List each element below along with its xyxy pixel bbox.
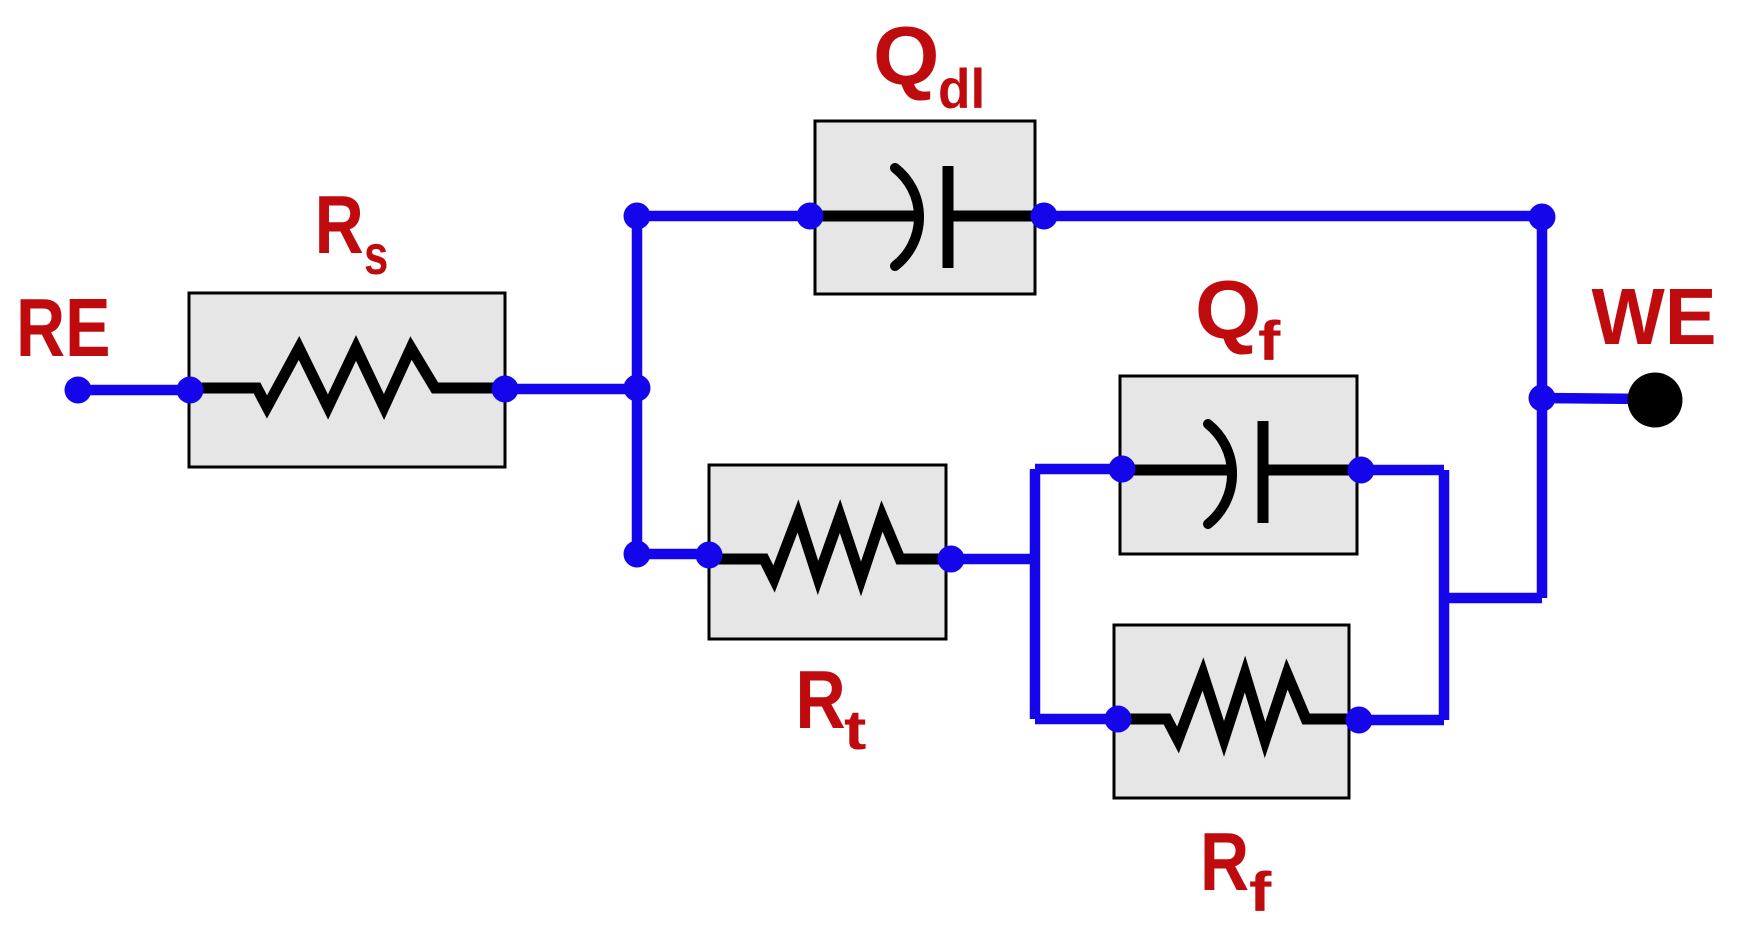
node Qf right xyxy=(1348,457,1375,484)
node bottom corner xyxy=(624,541,651,568)
node Qf left xyxy=(1109,456,1136,483)
wire Qdl to right corner xyxy=(1035,211,1542,222)
wire split to Rf xyxy=(1035,714,1118,725)
svg-text:R: R xyxy=(795,654,845,746)
resistor Rs box xyxy=(189,293,505,467)
terminal WE dot xyxy=(1628,373,1683,428)
wire top branch to Qdl xyxy=(637,211,815,222)
wire WE stub xyxy=(1542,398,1650,399)
node Rf left xyxy=(1105,706,1132,733)
svg-text:R: R xyxy=(315,179,364,272)
node WE junction xyxy=(1529,385,1556,412)
node Rt left xyxy=(696,542,723,569)
wire bottom branch to Rt xyxy=(637,549,710,560)
resistor Rt box xyxy=(709,465,946,639)
wire right vertical xyxy=(1537,216,1548,598)
svg-text:f: f xyxy=(1258,310,1281,372)
wire Qf to merge xyxy=(1357,465,1444,476)
node RE terminal xyxy=(65,377,92,404)
node Rs left xyxy=(177,377,204,404)
node Rf right xyxy=(1346,707,1373,734)
wire Rs to main junction xyxy=(505,384,637,395)
CPE Qf box xyxy=(1120,376,1357,554)
node main junction xyxy=(624,375,651,402)
wire right merge vertical xyxy=(1439,470,1450,720)
svg-text:Q: Q xyxy=(1195,263,1262,356)
node top corner xyxy=(624,203,651,230)
node Rt right xyxy=(938,546,965,573)
node Qdl right xyxy=(1031,203,1058,230)
svg-text:s: s xyxy=(364,224,388,286)
svg-text:dl: dl xyxy=(938,58,985,121)
wire Rf to merge xyxy=(1349,715,1444,726)
svg-text:RE: RE xyxy=(16,282,111,375)
svg-text:f: f xyxy=(1249,861,1272,923)
svg-text:WE: WE xyxy=(1592,272,1717,361)
wire Rt to split xyxy=(946,554,1035,565)
svg-text:t: t xyxy=(844,699,866,761)
node right top corner xyxy=(1529,204,1556,231)
wire split to Qf xyxy=(1035,464,1122,475)
resistor Rf box xyxy=(1114,625,1349,798)
wire RE to Rs xyxy=(78,385,190,396)
CPE Qdl box xyxy=(815,121,1035,294)
wire jog merge to right vertical xyxy=(1444,593,1542,604)
node Rs right xyxy=(492,376,519,403)
node Qdl left xyxy=(797,203,824,230)
wire left split vertical xyxy=(1030,469,1041,719)
svg-text:Q: Q xyxy=(873,9,940,102)
svg-text:R: R xyxy=(1200,816,1249,909)
wire main vertical branch xyxy=(632,216,643,554)
